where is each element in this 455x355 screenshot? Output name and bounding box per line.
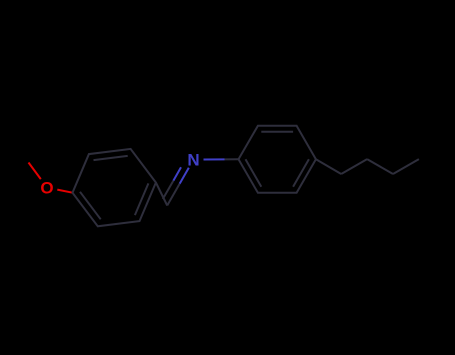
ring 2 double bond (lower-left edge): [246, 159, 262, 187]
wire: butyl chain bond 3: [367, 159, 393, 174]
ring: benzene ring 2 (aniline ring) outline: [239, 126, 316, 193]
wire: butyl chain bond 1: [316, 159, 341, 174]
wire: methyl bond CH3-O: [29, 163, 41, 180]
ring 1 double bond (lower-left edge): [80, 192, 101, 220]
wire: butyl chain bond 4: [393, 159, 419, 174]
ring 1 double bond (top edge): [94, 156, 128, 160]
ring 2 double bond (top edge): [261, 131, 293, 133]
ring: benzene ring 1 (anisole ring) outline: [73, 149, 156, 226]
ring 1 double bond (lower-right edge): [135, 183, 149, 215]
svg-text:N: N: [187, 150, 199, 169]
ring 2 double bond (lower-right edge): [293, 159, 309, 187]
wire: bond ring1-CH: [156, 183, 167, 206]
wire: butyl chain bond 2: [341, 159, 367, 174]
svg-text:O: O: [40, 178, 53, 197]
wire: bond N-ring2: [204, 158, 239, 160]
wire: C=N double bond (imine): [163, 167, 189, 205]
wire: bond O-ring1: [57, 190, 72, 193]
